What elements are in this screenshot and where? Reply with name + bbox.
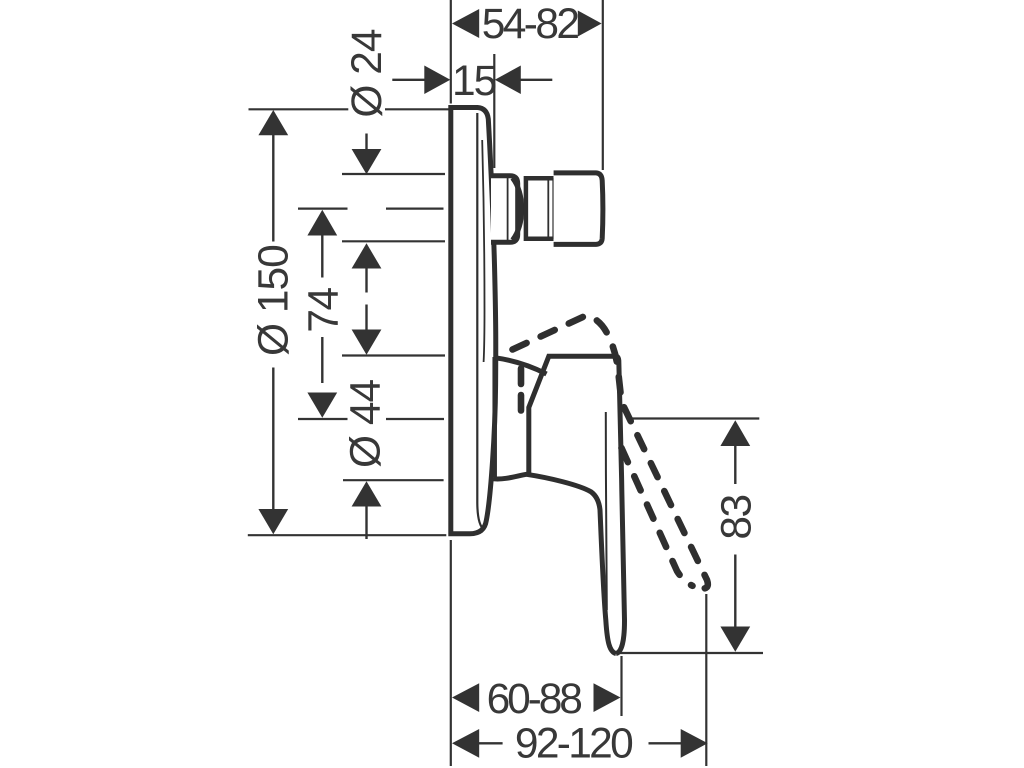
tick line hub top y=355.5 bbox=[342, 354, 445, 356]
arrow 83 up bbox=[720, 420, 750, 446]
arrow 24/44 up bbox=[352, 243, 382, 268]
dim 83 stem upper bbox=[734, 445, 736, 485]
collar outline bbox=[491, 176, 518, 243]
dim 24/44 shared stem bbox=[365, 268, 367, 331]
arrow 83 down bbox=[720, 627, 750, 652]
dim 83 stem lower bbox=[734, 555, 736, 629]
raised lever top edge + outer right edge (dashed) bbox=[513, 316, 708, 589]
plate face right limb bbox=[482, 140, 484, 362]
arrow 60-88 right bbox=[594, 683, 621, 712]
arrow 15 left (points right) bbox=[424, 66, 450, 95]
tick line hub bottom y=480 bbox=[343, 479, 444, 481]
valve body edge bbox=[492, 357, 497, 477]
arrow 44 up bbox=[352, 481, 382, 506]
svg-text:54-82: 54-82 bbox=[482, 1, 579, 48]
tick line plate bottom y=535 bbox=[248, 534, 446, 536]
hub top arc bbox=[496, 358, 547, 374]
arrow 92-120 left bbox=[452, 729, 479, 758]
collar inner line bbox=[507, 178, 509, 240]
tick line collar top y=174 bbox=[342, 173, 445, 175]
hub bottom + grip left edge bbox=[494, 474, 617, 653]
dim Ø150 stem lower bbox=[272, 368, 274, 511]
svg-text:Ø 150: Ø 150 bbox=[251, 245, 298, 356]
arrow 54-82 right bbox=[578, 11, 602, 37]
svg-text:15: 15 bbox=[452, 58, 496, 105]
wall plate (escutcheon) outline bbox=[451, 108, 496, 534]
knob neck bbox=[526, 178, 554, 239]
knob neck inner line 2 bbox=[552, 178, 554, 239]
svg-text:92-120: 92-120 bbox=[515, 721, 632, 768]
arrow 24 down bbox=[352, 149, 382, 174]
dim 15 right tail bbox=[519, 79, 552, 81]
tick line plate top y=109 bbox=[249, 108, 449, 110]
dim 74 stem upper bbox=[321, 235, 323, 278]
knob grip bbox=[554, 173, 603, 245]
arrow 74 down bbox=[307, 393, 337, 418]
plate face line bbox=[477, 113, 484, 530]
arrow 92-120 right bbox=[681, 729, 708, 758]
arrow Ø150 down bbox=[258, 509, 288, 534]
extension line knob front face (x=603 top) bbox=[602, 0, 604, 170]
svg-text:Ø 24: Ø 24 bbox=[344, 29, 391, 118]
dim 92-120 left tail bbox=[477, 742, 503, 744]
lever inner line bbox=[606, 412, 607, 610]
dim 15 left tail bbox=[392, 79, 426, 81]
dim 44 stem lower bbox=[365, 506, 367, 540]
tick line pivot level y=419 bbox=[298, 418, 444, 420]
dim 24 stem upper bbox=[365, 134, 367, 151]
arrow Ø150 up bbox=[258, 110, 288, 135]
knob neck inner line 1 bbox=[547, 180, 549, 237]
dim Ø150 stem upper bbox=[272, 133, 274, 242]
arrow 15 right (points left) bbox=[495, 66, 521, 95]
arrow 74 up bbox=[307, 210, 337, 236]
extension line raised-lever tip (x=706) bbox=[705, 594, 707, 766]
dim 74 stem lower bbox=[321, 337, 323, 383]
extension line wall/plate-back (x=451 top) bbox=[450, 0, 452, 104]
tick line collar bottom y=241.3 bbox=[342, 240, 445, 242]
tick line 83-top y=418.5 bbox=[630, 417, 759, 419]
raised lever hub edge (dashed) bbox=[518, 369, 525, 415]
arrow 44 down bbox=[352, 330, 382, 355]
svg-text:74: 74 bbox=[301, 288, 348, 333]
dim 92-120 right tail bbox=[649, 742, 683, 744]
svg-text:Ø 44: Ø 44 bbox=[343, 379, 390, 468]
extension line lever tip (x=621.5) bbox=[620, 656, 622, 716]
svg-text:83: 83 bbox=[714, 495, 761, 539]
lever head and grip right edge bbox=[529, 356, 625, 653]
tick line centerline y=208.6 bbox=[298, 208, 444, 210]
svg-text:60-88: 60-88 bbox=[487, 676, 582, 723]
raised lever inner left edge (dashed) bbox=[622, 448, 693, 586]
extension line plate front (x=494) bbox=[493, 54, 495, 168]
collar dome arc bbox=[513, 178, 522, 240]
extension line plate-back bottom (x=451 bottom) bbox=[450, 540, 452, 766]
arrow 60-88 left bbox=[452, 683, 479, 712]
tick line 83-bottom y=653 bbox=[619, 652, 763, 654]
arrow 54-82 left bbox=[452, 9, 479, 38]
